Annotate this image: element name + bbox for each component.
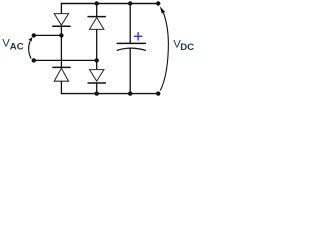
capacitor C1 curved bottom plate	[117, 48, 146, 50]
wire: left leg upper segment	[60, 3, 62, 14]
wire: right leg lower segment	[96, 83, 98, 94]
wire: left leg lower segment	[60, 81, 62, 93]
wire: capacitor bottom lead	[129, 48, 131, 93]
svg-text:DC: DC	[180, 42, 194, 53]
node: V_DC positive probe	[156, 1, 160, 5]
V_AC measurement arrow (curved, pointing at top AC node)	[29, 37, 33, 59]
wire: right leg middle segment	[96, 29, 98, 69]
node: capacitor bottom junction	[128, 91, 132, 95]
node: AC terminal bottom	[32, 58, 36, 62]
node: V_DC negative probe	[156, 91, 160, 95]
wire: AC input top (left terminal to left leg)	[34, 34, 62, 36]
node: right leg AC junction	[95, 58, 99, 62]
label V_DC	[173, 39, 194, 53]
node: right leg bottom junction	[95, 91, 99, 95]
wire: left leg middle segment (D1 cathode to D3 cathode)	[60, 26, 62, 67]
node: AC terminal top	[32, 33, 36, 37]
node: left leg AC junction	[59, 33, 63, 37]
diode D2 (top-right, pointing up)	[88, 17, 106, 30]
wire: capacitor top lead	[129, 4, 131, 44]
diode D3 (bottom-left, pointing up)	[52, 67, 70, 81]
V_DC measurement arrow (curved, pointing at top-right node)	[160, 6, 169, 90]
diode D1 (top-left, pointing down)	[52, 14, 70, 27]
wire: top DC rail	[61, 3, 158, 5]
diode D4 (bottom-right, pointing down)	[88, 70, 106, 83]
node: capacitor top junction	[128, 1, 132, 5]
svg-text:AC: AC	[10, 41, 24, 52]
node: right leg top junction	[95, 1, 99, 5]
label V_AC	[2, 38, 23, 53]
wire: AC input bottom (left terminal to right leg, crosses left leg)	[34, 59, 97, 61]
wire: right leg upper segment	[96, 4, 98, 17]
capacitor C1 top plate (+)	[117, 42, 146, 44]
wire: bottom DC rail	[61, 93, 158, 95]
plus polarity mark of capacitor	[134, 32, 142, 40]
